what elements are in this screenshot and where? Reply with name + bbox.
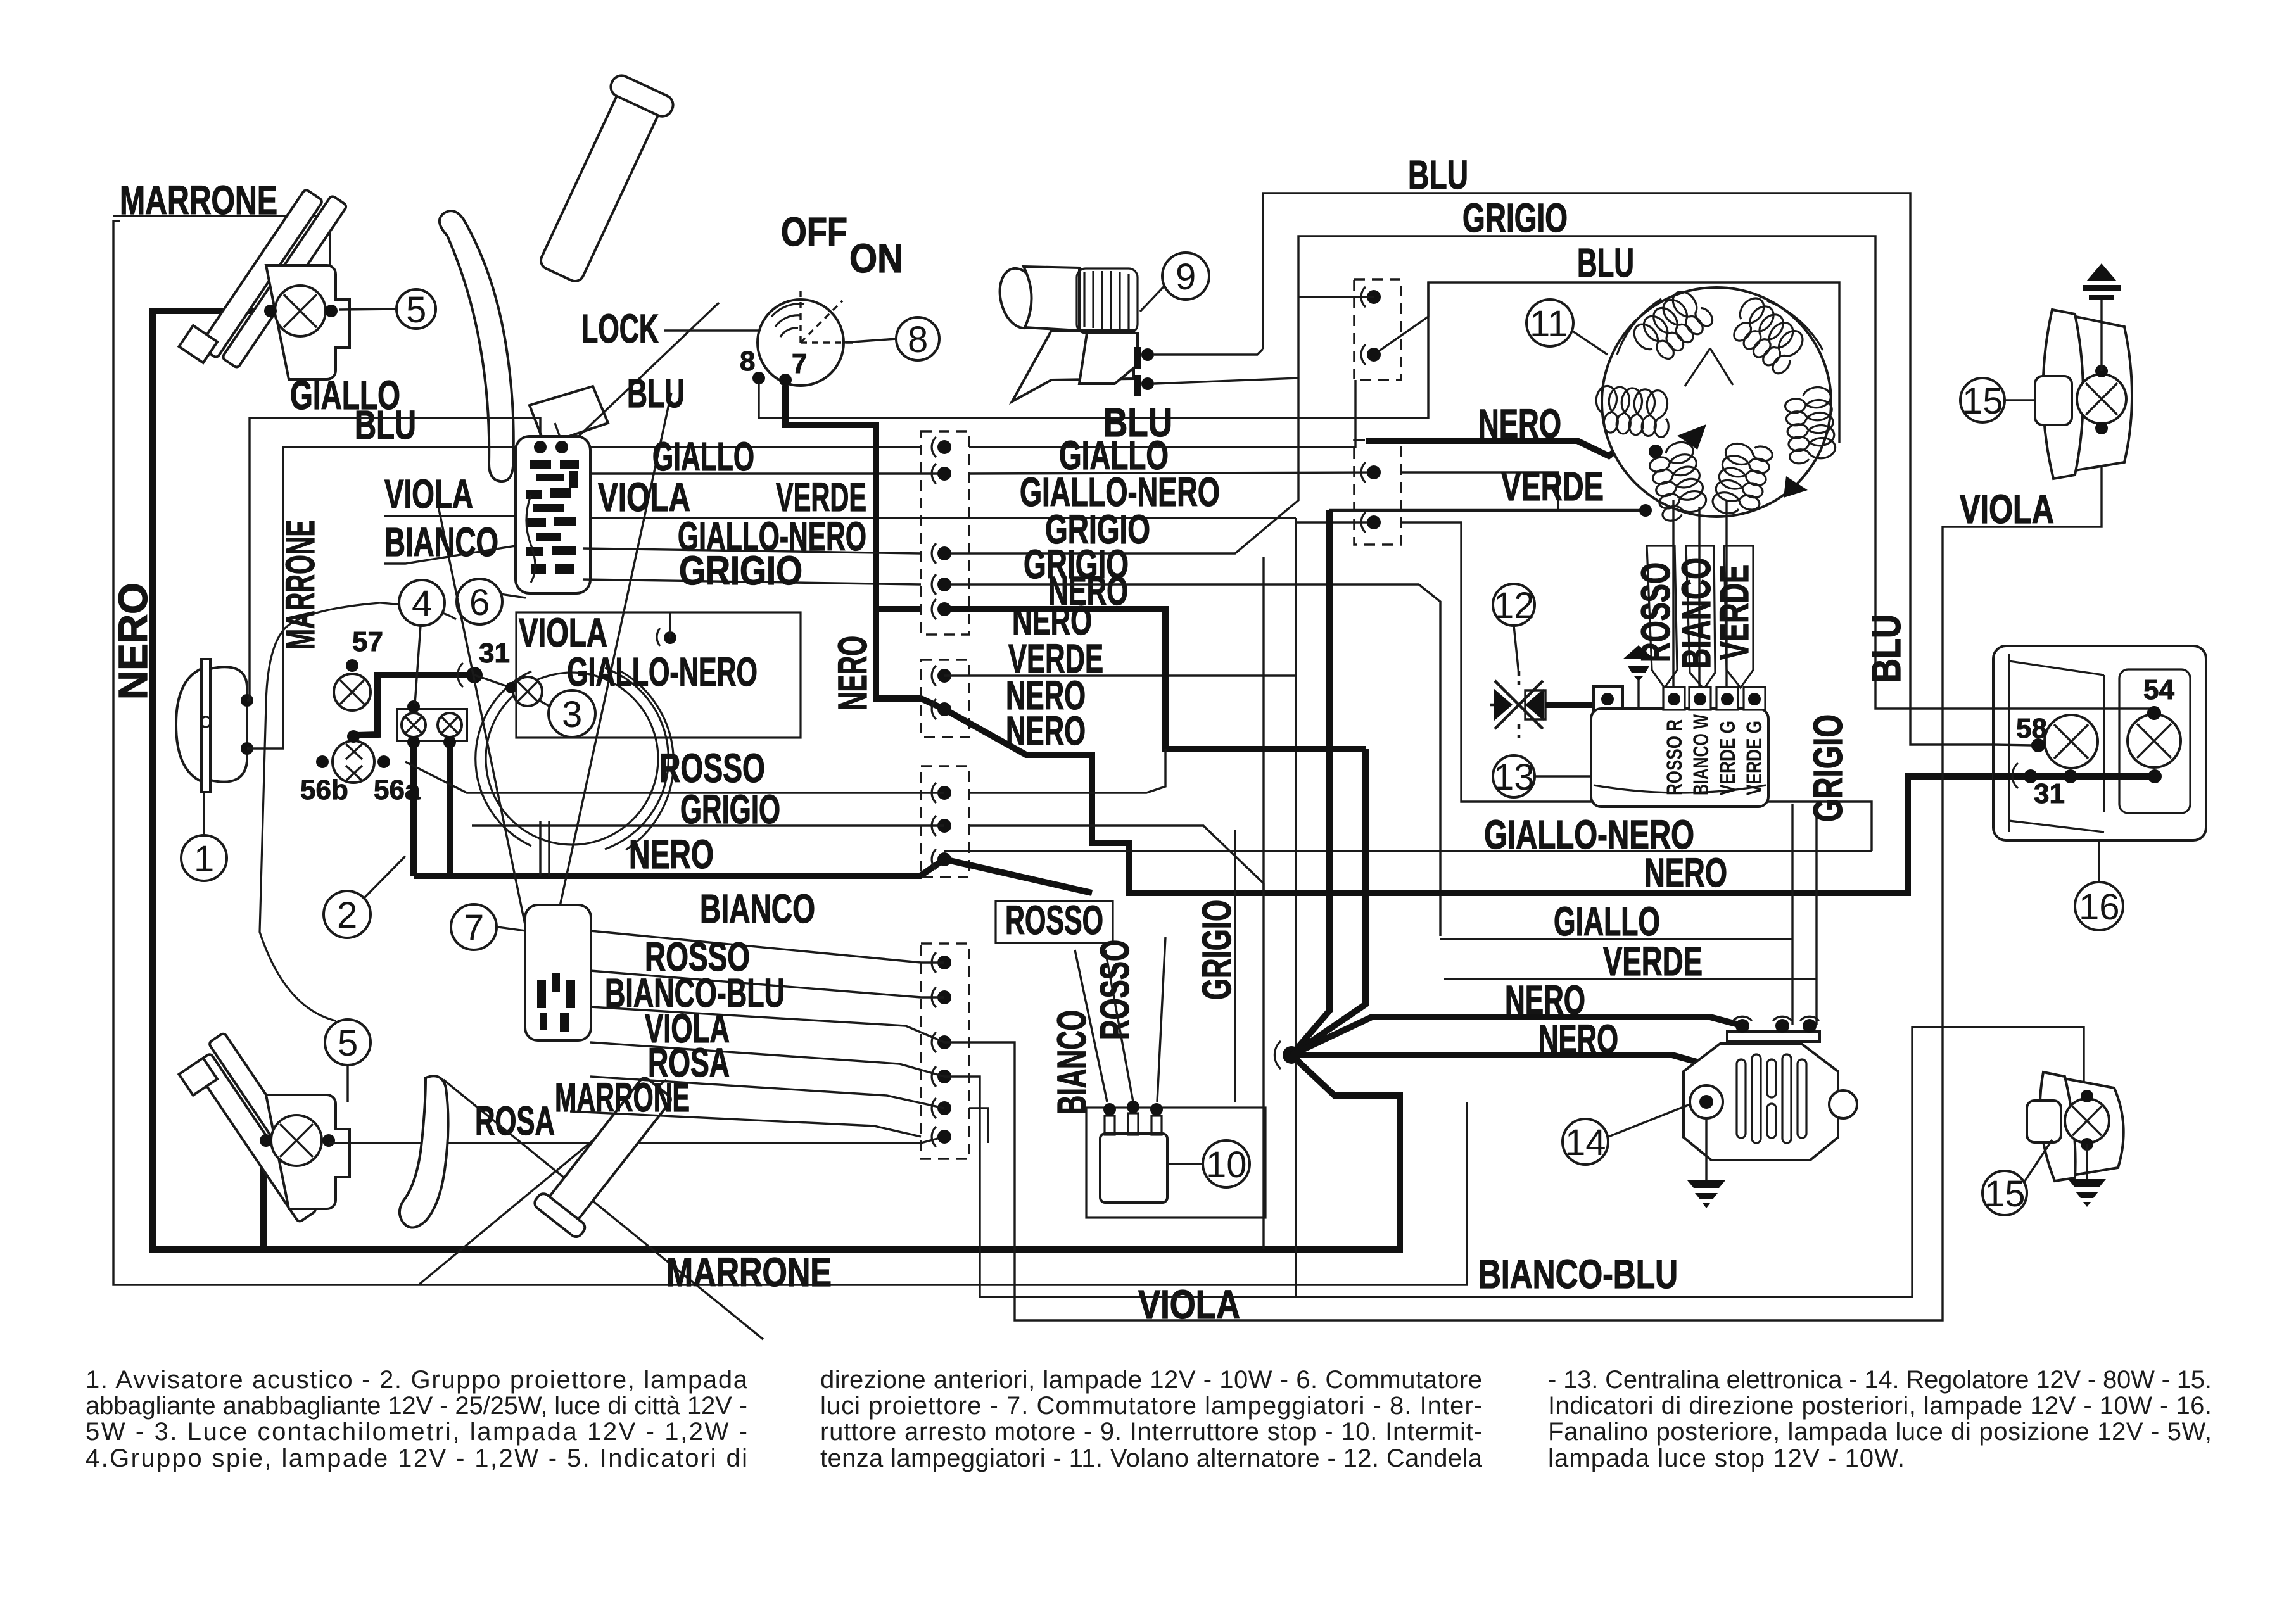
wire GIALLO row right <box>969 380 1355 447</box>
wire NERO speedo thick jog <box>357 675 474 735</box>
wire GIALLO headlamp row <box>290 418 540 443</box>
leader circle5 bottom <box>346 1065 348 1102</box>
horn 1 <box>201 659 210 792</box>
svg-text:GIALLO: GIALLO <box>652 434 754 479</box>
svg-text:VERDE: VERDE <box>1603 938 1703 984</box>
wire NERO thick trunk row2 <box>944 709 2155 893</box>
leader 16 <box>2098 840 2100 882</box>
wire NERO thick bottom run to right riser <box>263 1055 1400 1249</box>
svg-text:12: 12 <box>1494 585 1535 626</box>
wire VIOLA long bottom <box>944 437 2102 1320</box>
svg-text:OFF: OFF <box>781 209 847 255</box>
wire VERDE right row <box>1444 978 1817 980</box>
circle 10 <box>1203 1140 1250 1187</box>
wire LOCK dash <box>664 329 758 331</box>
CDI terminals <box>1663 687 1685 710</box>
wire viola drop <box>669 612 671 638</box>
wire GIALLO to flywheel lighting coil <box>1401 472 1609 510</box>
svg-text:13: 13 <box>1494 757 1535 798</box>
svg-text:15: 15 <box>1962 381 2003 422</box>
svg-text:BIANCO‑BLU: BIANCO‑BLU <box>1478 1251 1678 1297</box>
wire thin vertical x1995 upper <box>1262 557 1264 890</box>
wire GRIGIO row right2 <box>944 584 1440 936</box>
wire GRIGIO top <box>1298 236 2150 709</box>
svg-text:Indicatori di direzione poster: Indicatori di direzione posteriori, lamp… <box>1548 1392 2212 1420</box>
connector column 1 <box>921 431 969 635</box>
svg-text:NERO: NERO <box>629 831 714 877</box>
svg-text:1: 1 <box>194 838 214 880</box>
leader to circle 5 <box>339 309 396 310</box>
star junction <box>1283 1046 1300 1064</box>
wire grigio inside tail light <box>1993 709 2154 713</box>
circle 7 <box>451 904 497 950</box>
svg-text:BIANCO: BIANCO <box>1049 1010 1094 1115</box>
wire BIANCO row left <box>384 546 516 564</box>
svg-text:VERDE: VERDE <box>1711 565 1757 660</box>
volano alternatore 11 <box>1602 287 1831 517</box>
circle 15 bottom <box>1982 1171 2027 1215</box>
coil spring bottom-right <box>1713 444 1772 514</box>
commutatore luci switch 6 body <box>516 436 590 593</box>
svg-text:ROSSO R: ROSSO R <box>1663 719 1687 795</box>
wire grigio vertical mid <box>1234 830 1236 1102</box>
svg-text:3: 3 <box>562 694 582 735</box>
stator arms <box>1685 348 1733 386</box>
circle 15 top <box>1960 378 2005 422</box>
intermittenza 10 body <box>1100 1134 1167 1203</box>
ignition switch 8 <box>758 300 844 386</box>
wires to intermittenza <box>1075 950 1107 1102</box>
wire GIALLO mid row <box>590 472 944 474</box>
svg-text:58: 58 <box>2016 713 2047 744</box>
leader 9 <box>1140 286 1164 312</box>
spark terminal box <box>1594 686 1623 712</box>
svg-text:NERO: NERO <box>1644 850 1727 895</box>
svg-text:8: 8 <box>908 319 928 360</box>
svg-text:6: 6 <box>469 582 490 623</box>
svg-text:MARRONE: MARRONE <box>666 1249 832 1295</box>
circle 2 <box>324 891 371 938</box>
leader 10 <box>1167 1163 1203 1165</box>
wire BLU from ignition 7 <box>759 282 1428 418</box>
frame diagonal lines <box>437 500 543 1013</box>
coil spring top-right <box>1734 298 1803 374</box>
coil spring left <box>1596 386 1668 437</box>
circle 1 <box>181 835 227 881</box>
leader 7 <box>498 927 526 931</box>
circle 3 <box>549 690 595 737</box>
wire VIOLA row left <box>384 515 516 517</box>
leader 6 to switch <box>500 594 526 598</box>
circle 13 <box>1493 755 1535 797</box>
svg-text:MARRONE: MARRONE <box>555 1075 690 1120</box>
headlight group 2 reflector outline <box>260 603 380 1021</box>
commutatore lampeggiatori switch 7 <box>525 905 591 1040</box>
lamp indicator 15 top <box>2077 374 2126 424</box>
speedometer housing arcs <box>486 673 658 845</box>
balloon BIANCO <box>1686 546 1715 689</box>
wire VERDE mid row <box>944 674 1296 676</box>
svg-text:5: 5 <box>406 289 426 331</box>
balloon VERDE <box>1724 546 1753 688</box>
interruttore stop 9 body <box>994 264 1045 332</box>
svg-text:Fanalino posteriore, lampada l: Fanalino posteriore, lampada luce di pos… <box>1548 1418 2212 1446</box>
svg-text:direzione anteriori, lampade 1: direzione anteriori, lampade 12V - 10W -… <box>820 1366 1482 1394</box>
lamp 54 stop <box>2128 714 2181 767</box>
intermittenza 10 outer frame <box>1086 1108 1265 1218</box>
svg-text:NERO: NERO <box>830 636 875 710</box>
svg-text:16: 16 <box>2079 887 2120 928</box>
wire ROSSO row <box>405 762 944 793</box>
circle 5 bottom <box>325 1020 371 1065</box>
wire flywheel VERDE down <box>1725 500 1727 688</box>
lamp 57 city light <box>334 674 371 710</box>
svg-text:9: 9 <box>1176 256 1196 298</box>
svg-text:VIOLA: VIOLA <box>384 471 473 517</box>
wire ROSA switch7 row <box>590 1077 944 1108</box>
svg-text:LOCK: LOCK <box>581 306 659 351</box>
connector column 3 <box>921 766 969 877</box>
leader 14 <box>1607 1104 1690 1137</box>
leader 12 to spark plug <box>1514 626 1519 674</box>
svg-text:8: 8 <box>740 346 755 377</box>
wire BLU headlamp row <box>355 446 540 448</box>
front turn indicator 5 bottom body <box>174 1032 336 1232</box>
wire thick NERO cluster trunk <box>414 859 944 876</box>
throttle tube <box>529 72 676 288</box>
regolatore 14 body <box>1684 1044 1838 1160</box>
svg-text:GRIGIO: GRIGIO <box>1194 900 1240 1000</box>
svg-text:VIOLA: VIOLA <box>1960 486 2054 532</box>
circle 9 <box>1162 253 1209 300</box>
wire 31 rail inside tail light <box>1993 773 2155 780</box>
fork tube lines <box>539 821 541 876</box>
svg-text:10: 10 <box>1206 1144 1247 1185</box>
svg-text:4.Gruppo spie, lampade 12V: 4.Gruppo spie, lampade 12V - 1,2W - 5. I… <box>86 1444 747 1472</box>
svg-text:NERO: NERO <box>110 583 156 700</box>
svg-text:GRIGIO: GRIGIO <box>1805 714 1851 822</box>
connector column 2 <box>921 660 969 737</box>
svg-text:4: 4 <box>412 583 432 624</box>
node dot on viola wire <box>664 631 676 644</box>
leader 4 to lamps <box>415 626 421 704</box>
wire MARRONE left vertical and bottom run <box>113 221 1467 1285</box>
balloon ROSSO <box>1647 546 1677 688</box>
svg-text:BLU: BLU <box>355 402 416 448</box>
wire BLU second <box>1374 282 1839 443</box>
svg-text:7: 7 <box>464 907 484 949</box>
wire NERO thick trunk row1 <box>944 609 1366 749</box>
svg-text:VERDE G: VERDE G <box>1716 721 1740 795</box>
svg-text:GIALLO‑NERO: GIALLO‑NERO <box>567 649 758 695</box>
svg-text:ROSSO: ROSSO <box>1092 940 1138 1040</box>
svg-text:abbagliante anabbagliante 12V: abbagliante anabbagliante 12V - 25/25W, … <box>86 1392 747 1420</box>
svg-text:15: 15 <box>1984 1173 2026 1215</box>
candela spark plug 12 <box>1490 671 1543 738</box>
wire GIALLO-NERO right row <box>944 850 1872 852</box>
wire NERO thick flywheel <box>1366 441 1640 469</box>
boxed label ROSSO <box>996 901 1113 943</box>
svg-text:BIANCO: BIANCO <box>700 886 815 931</box>
wire GRIGIO row right1 <box>944 377 1298 553</box>
wire MARRONE top to front indicator <box>113 216 332 311</box>
wire spark plug thick <box>1545 702 1596 708</box>
regulator top bar <box>1727 1032 1820 1042</box>
clutch lever bottom <box>400 1076 448 1227</box>
circle 6 <box>457 579 502 624</box>
svg-text:57: 57 <box>352 626 383 657</box>
svg-text:14: 14 <box>1565 1122 1606 1163</box>
svg-text:VERDE G: VERDE G <box>1742 721 1766 795</box>
wire flywheel BIANCO down <box>1698 507 1700 688</box>
svg-text:VERDE: VERDE <box>1501 464 1604 509</box>
circle 4 <box>399 580 445 626</box>
leader horn to circle 1 <box>203 792 205 835</box>
svg-text:BIANCO W: BIANCO W <box>1689 714 1713 795</box>
svg-text:7: 7 <box>792 348 807 379</box>
cable diagonal under BLU <box>571 303 719 443</box>
regulator ground <box>1705 1118 1707 1180</box>
lamp indicator 15 bottom <box>2065 1099 2109 1143</box>
svg-text:GRIGIO: GRIGIO <box>1462 195 1568 241</box>
wire GRIGIO row <box>472 824 944 826</box>
brake lever blade <box>440 211 514 481</box>
rear indicator 15 bottom body <box>2050 1077 2124 1177</box>
front turn indicator 5 top body <box>179 172 348 381</box>
svg-text:GIALLO: GIALLO <box>1554 899 1660 944</box>
coil spring bottom-left <box>1650 442 1706 521</box>
svg-text:ROSSO: ROSSO <box>659 745 765 791</box>
circle 11 <box>1526 300 1573 346</box>
svg-text:BLU: BLU <box>1863 614 1909 683</box>
svg-text:BLU: BLU <box>1408 152 1468 198</box>
wire horn upper <box>247 418 290 700</box>
ground at CDI <box>1623 645 1654 659</box>
callout box VIOLA / GIALLO-NERO <box>516 612 801 738</box>
circle 14 <box>1563 1119 1608 1165</box>
wire GIALLO-NERO mid row <box>590 517 1296 519</box>
leader 13 <box>1535 775 1591 777</box>
junction 31 <box>466 667 483 683</box>
leader 2 <box>364 856 405 898</box>
wire VIOLA switch7 row <box>590 1042 944 1077</box>
svg-text:BLU: BLU <box>1577 240 1634 286</box>
circle 8 <box>896 317 939 360</box>
lamp 3 speedo light <box>474 675 511 688</box>
wire VERDE flywheel <box>1329 509 1646 512</box>
svg-text:56b: 56b <box>300 774 348 805</box>
wire GRIGIO mid row <box>583 579 921 584</box>
lamp front indicator bottom <box>271 1115 322 1166</box>
wire VIOLA mid row <box>969 472 1374 474</box>
coil spring right <box>1785 388 1836 464</box>
lamp 56b high-low beam <box>333 741 374 783</box>
pilot lamp box 4 <box>397 709 467 741</box>
wire stop switch upper <box>1154 349 1263 355</box>
wires col3 to right risers <box>969 749 1165 793</box>
wire MARRONE switch7 row <box>570 1111 921 1137</box>
leader 11 <box>1573 331 1608 355</box>
svg-text:BLU: BLU <box>627 370 685 416</box>
fanalino posteriore 16 <box>1993 646 2206 840</box>
svg-text:tenza lampeggiatori - 11. Vola: tenza lampeggiatori - 11. Volano alterna… <box>820 1444 1483 1472</box>
wire NERO thick left vertical down to bottom run <box>153 311 272 1249</box>
svg-text:31: 31 <box>2034 778 2065 809</box>
svg-text:ON: ON <box>849 236 903 281</box>
front indicator 5 bottom lamp holder <box>266 1095 350 1209</box>
wire BIANCO-BLU long bottom <box>944 1027 2084 1297</box>
lamp 58 tail <box>2045 715 2098 768</box>
wire ROSA to col4 <box>969 1108 988 1143</box>
svg-text:ROSSO: ROSSO <box>1005 897 1103 943</box>
centralina elettronica 13 CDI <box>1591 709 1768 807</box>
svg-text:5: 5 <box>338 1023 358 1064</box>
connector right box1 <box>1354 279 1401 380</box>
circle 5 top <box>396 289 436 329</box>
wire blu inside tail light <box>1993 745 2031 745</box>
node dots on tail 31 rail <box>2024 769 2038 783</box>
wire GIALLO right row <box>1440 938 1792 940</box>
rear indicator 15 top body <box>2054 314 2132 472</box>
wire thick pilot lamps down <box>410 741 417 876</box>
ground indicator 15 bottom <box>2086 1144 2088 1179</box>
wire stop switch lower <box>1154 378 1298 384</box>
circle 16 <box>2075 882 2123 930</box>
circle 12 <box>1493 584 1535 626</box>
wire NERO thick from ignition <box>785 386 944 709</box>
connector right box2 <box>1354 440 1401 545</box>
wire GIALLO-NERO row right <box>1296 518 1374 522</box>
svg-text:GRIGIO: GRIGIO <box>679 548 802 593</box>
svg-text:5W - 3. Luce contachilomet: 5W - 3. Luce contachilometri, lampada 12… <box>86 1418 747 1446</box>
leader 15 top <box>2004 399 2035 401</box>
wire flywheel source coils down ROSSO <box>1672 500 1674 688</box>
svg-text:lampada luce stop 12V - 10W.: lampada luce stop 12V - 10W. <box>1548 1444 1905 1472</box>
kick lever bottom <box>532 1070 682 1239</box>
wire right box1 to grigio riser <box>1298 296 1374 298</box>
wire junction to regulator ground <box>1291 1055 1706 1089</box>
switch 6 contacts hatching <box>526 460 579 574</box>
svg-text:31: 31 <box>479 638 510 669</box>
wire BLU top <box>1263 193 2038 745</box>
leader to circle 8 <box>844 339 896 343</box>
svg-text:luci proiettore - 7. Commutato: luci proiettore - 7. Commutatore lampegg… <box>820 1392 1482 1420</box>
wire BIANCO-BLU switch7 row <box>590 1007 944 1042</box>
hub arrow <box>1649 445 1663 458</box>
wire ROSA from bottom indicator <box>329 1137 944 1143</box>
connector column 4 <box>921 944 969 1159</box>
svg-text:1. Avvisatore acustico - 2: 1. Avvisatore acustico - 2. Gruppo proie… <box>86 1366 748 1394</box>
svg-text:VIOLA: VIOLA <box>598 474 690 520</box>
svg-text:11: 11 <box>1530 303 1568 344</box>
svg-text:54: 54 <box>2143 674 2174 705</box>
svg-text:ruttore arresto motore - 9. In: ruttore arresto motore - 9. Interruttore… <box>820 1418 1482 1446</box>
leader 15 bottom <box>2024 1140 2052 1183</box>
front indicator 5 top lamp holder <box>266 265 350 379</box>
wire ROSSO switch7 row <box>590 971 944 997</box>
wire junction to regulator T1 <box>1291 1017 1739 1055</box>
lamp front indicator top <box>275 286 326 336</box>
leader lamp3 to circle 3 <box>540 701 552 708</box>
svg-text:MARRONE: MARRONE <box>277 520 323 650</box>
ground indicator 15 top <box>2100 295 2102 371</box>
svg-text:- 13. Centralina elettronica -: - 13. Centralina elettronica - 14. Regol… <box>1548 1366 2212 1394</box>
wire giallo-nero right of box2 <box>1401 522 1872 851</box>
svg-text:2: 2 <box>337 895 357 936</box>
coil spring top-left <box>1634 292 1712 359</box>
wire junction risers <box>1291 510 1329 1055</box>
wire BIANCO switch7 row <box>590 931 944 963</box>
lever pivot block <box>530 386 608 445</box>
wire horn lower <box>247 447 355 748</box>
